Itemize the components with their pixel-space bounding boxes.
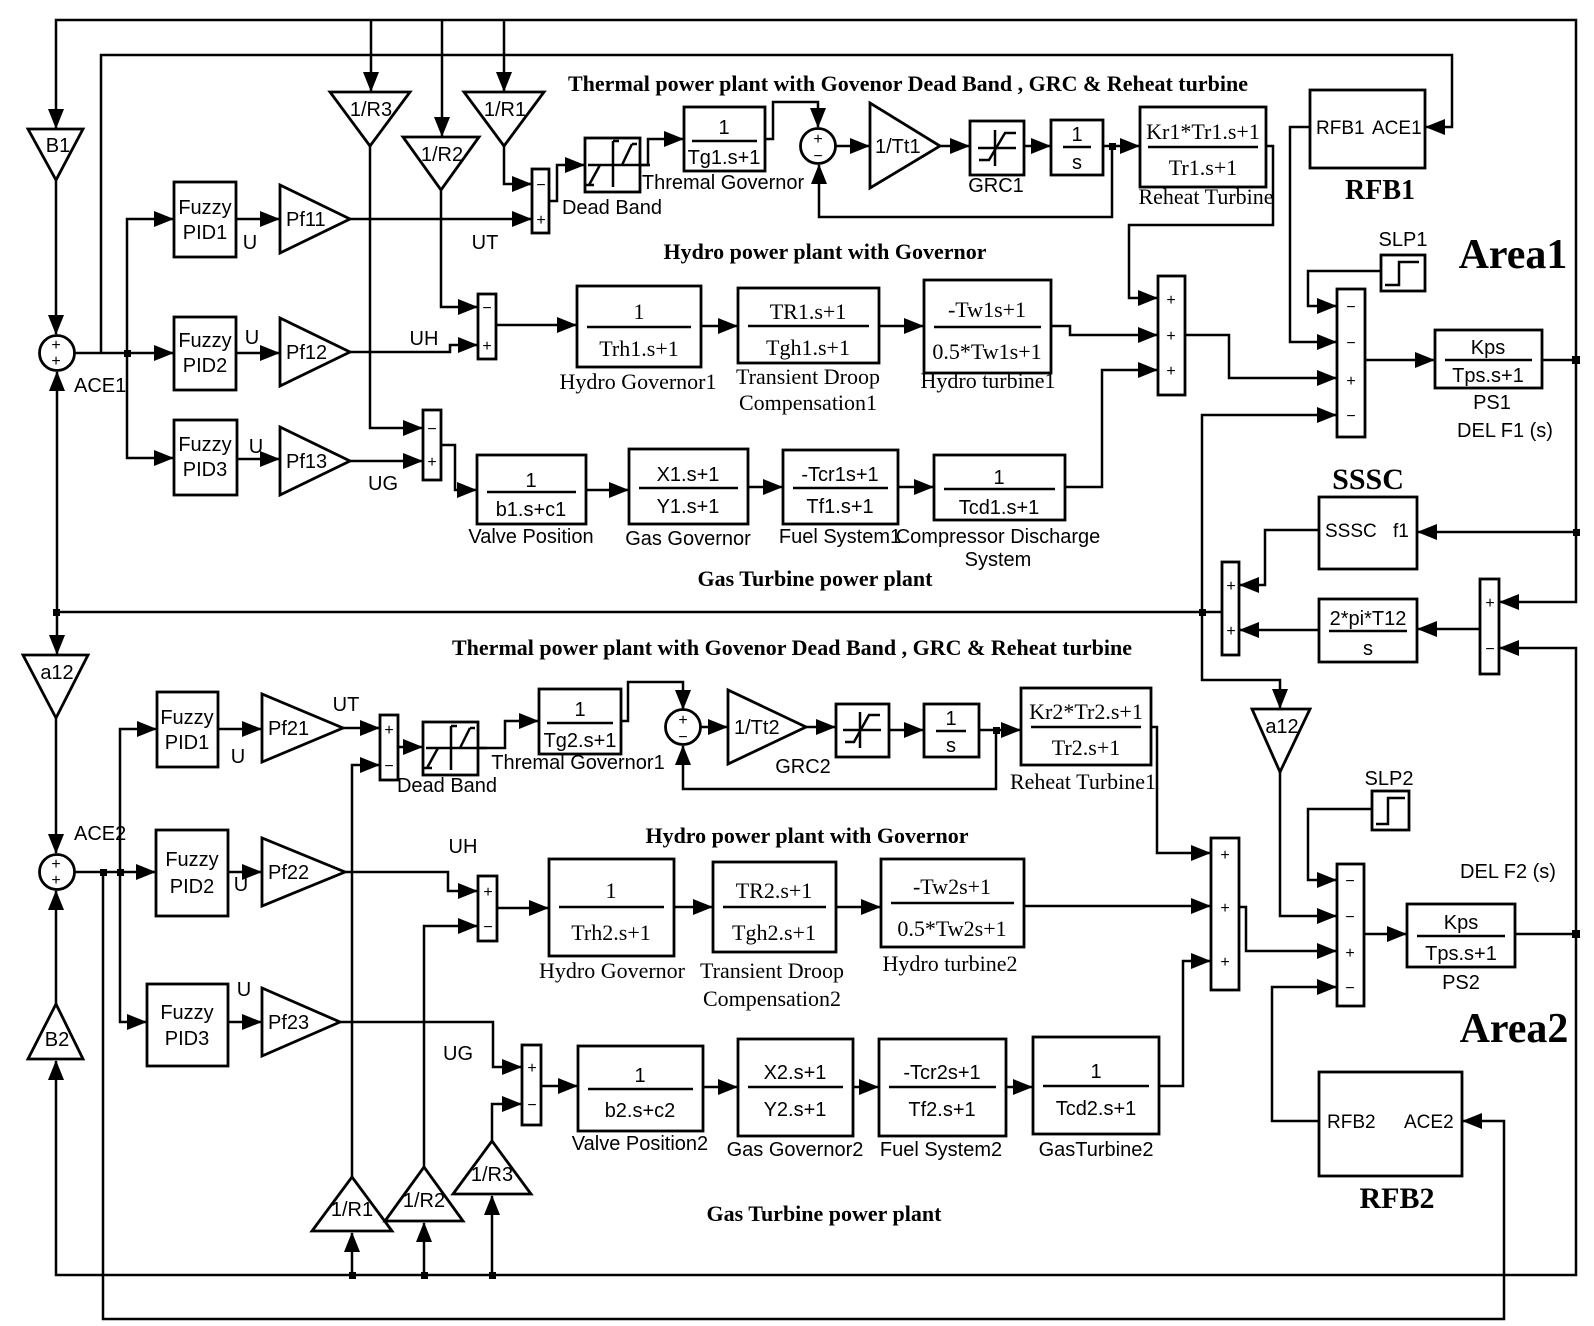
svg-text:+: + <box>1485 595 1494 612</box>
svg-text:1: 1 <box>525 470 536 492</box>
label U of PID2 <box>245 327 259 349</box>
wire drop to 1/R1 <box>503 20 506 91</box>
svg-text:+: + <box>51 353 60 370</box>
svg-text:s: s <box>1072 152 1082 174</box>
label RFB1 <box>1345 175 1415 206</box>
svg-text:+: + <box>1226 623 1235 640</box>
label SLP1 <box>1379 229 1428 251</box>
svg-text:+: + <box>482 338 491 355</box>
label U of PID1 <box>243 232 257 254</box>
wire ACE2 tap down to RFB2 ACE2 input <box>103 872 1504 1319</box>
gain Pf22 <box>262 838 345 906</box>
svg-text:1/R2: 1/R2 <box>421 144 463 166</box>
svg-text:RFB1: RFB1 <box>1345 175 1415 206</box>
svg-text:UH: UH <box>449 836 478 858</box>
svg-text:X2.s+1: X2.s+1 <box>764 1062 827 1084</box>
block Fuzzy PID3 area2 <box>147 984 228 1066</box>
svg-text:Hydro power plant with Governo: Hydro power plant with Governor <box>645 823 968 848</box>
svg-text:1: 1 <box>718 117 729 139</box>
svg-text:ACE2: ACE2 <box>1404 1112 1454 1133</box>
block Transient Droop Compensation1 (TR1.s+1)/(Tgh1.s+1) <box>738 288 879 363</box>
label Valve Position <box>468 526 593 548</box>
svg-text:ACE2: ACE2 <box>74 823 126 845</box>
svg-text:ACE1: ACE1 <box>74 375 126 397</box>
svg-text:+: + <box>1226 578 1235 595</box>
label Fuel System2 <box>880 1139 1002 1161</box>
label GRC2 <box>775 756 831 778</box>
wire tie to ACE1 sum bottom <box>56 372 59 612</box>
wire drop to 1/R3 <box>370 20 373 91</box>
svg-text:PID1: PID1 <box>165 732 209 754</box>
svg-text:+: + <box>51 872 60 889</box>
svg-text:DEL F1 (s): DEL F1 (s) <box>1457 420 1553 442</box>
sum UT area2 <box>380 715 398 780</box>
svg-text:PID2: PID2 <box>183 355 227 377</box>
svg-text:1/Tt1: 1/Tt1 <box>875 136 921 158</box>
svg-text:Hydro turbine1: Hydro turbine1 <box>920 368 1055 393</box>
wire B1 output to ACE1 sum <box>55 180 58 334</box>
wire Hydro Governor1 to Transient Droop Compensation1 <box>701 325 737 328</box>
svg-text:0.5*Tw1s+1: 0.5*Tw1s+1 <box>932 339 1041 364</box>
block Hydro turbine1 (-Tw1s+1)/(0.5*Tw1s+1) <box>924 280 1051 373</box>
wire PID2 to Pf22 <box>228 871 261 874</box>
svg-text:+: + <box>1166 328 1175 345</box>
svg-text:Pf23: Pf23 <box>268 1012 309 1034</box>
svg-text:−: − <box>813 148 822 165</box>
node tie junction a12 right <box>1199 609 1206 616</box>
svg-text:+: + <box>427 454 436 471</box>
wire 3-input sum to big sum plus <box>1185 335 1336 378</box>
svg-text:1: 1 <box>574 699 585 721</box>
svg-text:−: − <box>483 919 492 936</box>
gain Pf11 <box>280 185 350 253</box>
svg-text:GasTurbine2: GasTurbine2 <box>1039 1139 1154 1161</box>
wire UT sum to Dead Band <box>549 165 584 201</box>
svg-text:U: U <box>237 979 251 1001</box>
gain 1/R2 area2 <box>385 1167 463 1221</box>
wire TDC1 to Hydro turbine1 <box>879 325 923 328</box>
wire SSSC output to left tie sum <box>1240 530 1319 585</box>
label Hydro turbine1 <box>920 368 1055 393</box>
svg-text:PID3: PID3 <box>165 1028 209 1050</box>
sum thermal area2 <box>666 710 701 747</box>
block SSSC <box>1319 497 1417 569</box>
svg-text:0.5*Tw2s+1: 0.5*Tw2s+1 <box>897 916 1006 941</box>
svg-text:Pf21: Pf21 <box>268 718 309 740</box>
title gas area1 <box>698 566 934 591</box>
svg-text:Gas Turbine power plant: Gas Turbine power plant <box>707 1201 943 1226</box>
block Valve Position2 1/(b2.s+c2) <box>578 1046 703 1131</box>
label Hydro Governor area2 <box>539 958 686 983</box>
label Hydro Governor1 <box>559 369 716 394</box>
wire drop to 1/R2 <box>441 20 444 136</box>
svg-text:−: − <box>1345 980 1354 997</box>
wire DEL-F1 top feedback line to B1 and droop gains <box>56 20 1576 360</box>
label Compressor Discharge System <box>896 526 1101 571</box>
node ACE2 junction2 <box>117 869 124 876</box>
sum ACE2 <box>40 855 75 890</box>
label Thremal Governor1 <box>491 752 664 774</box>
svg-text:SSSC: SSSC <box>1325 521 1377 542</box>
svg-text:+: + <box>1220 847 1229 864</box>
wire DEL F1 down to tie sum plus <box>1500 360 1576 602</box>
wire ACE1 output to Fuzzy PID2 <box>75 352 173 355</box>
svg-text:Pf11: Pf11 <box>286 209 326 231</box>
block SLP1 step <box>1381 255 1425 291</box>
wire Pf21 to UT sum area2 <box>343 727 379 730</box>
svg-text:1: 1 <box>1090 1061 1101 1083</box>
block PS1 Kps/(Tps.s+1) <box>1435 330 1542 388</box>
svg-text:RFB2: RFB2 <box>1327 1112 1376 1133</box>
svg-text:Valve Position2: Valve Position2 <box>572 1133 708 1155</box>
gain 1/R2 area1 <box>403 137 479 190</box>
node tie junction left <box>53 609 60 616</box>
svg-text:Gas Governor: Gas Governor <box>625 528 751 550</box>
svg-text:RFB2: RFB2 <box>1360 1182 1435 1215</box>
gain 1/Tt2 <box>728 690 806 764</box>
svg-text:Area2: Area2 <box>1460 1006 1569 1052</box>
svg-text:Thremal Governor: Thremal Governor <box>642 172 805 194</box>
svg-text:Tgh2.s+1: Tgh2.s+1 <box>732 920 816 945</box>
svg-text:SLP1: SLP1 <box>1379 229 1428 251</box>
node ACE2 junction1 <box>100 869 107 876</box>
svg-text:Gas Governor2: Gas Governor2 <box>727 1139 864 1161</box>
title gas area2 <box>707 1201 943 1226</box>
wire Reheat Turbine to 3-input sum <box>1129 146 1273 298</box>
block Fuzzy PID3 <box>174 420 237 495</box>
wire SLP1 to big sum minus1 <box>1308 271 1381 306</box>
label ACE1 <box>74 375 126 397</box>
wire 3-input sum area2 to big sum2 plus <box>1239 907 1336 951</box>
svg-text:Kps: Kps <box>1471 337 1505 359</box>
svg-text:−: − <box>527 1097 536 1114</box>
svg-text:Tgh1.s+1: Tgh1.s+1 <box>766 335 850 360</box>
gain 1/R3 area2 <box>453 1141 531 1194</box>
svg-text:Hydro power plant with Governo: Hydro power plant with Governor <box>663 239 986 264</box>
svg-text:+: + <box>1345 945 1354 962</box>
svg-text:PS1: PS1 <box>1473 392 1511 414</box>
label U of PID3 <box>249 436 263 458</box>
svg-text:U: U <box>231 746 245 768</box>
svg-text:1: 1 <box>634 299 645 324</box>
wire 1/s to Reheat Turbine1 <box>979 729 1020 732</box>
svg-text:+: + <box>1166 363 1175 380</box>
svg-text:s: s <box>1363 638 1373 660</box>
wire Pf12 to UH sum (UH) <box>350 345 477 352</box>
label Gas Governor2 <box>727 1139 864 1161</box>
svg-text:Pf13: Pf13 <box>286 451 327 473</box>
svg-text:X1.s+1: X1.s+1 <box>657 464 720 486</box>
block Fuzzy PID1 <box>174 182 236 257</box>
svg-text:1/R3: 1/R3 <box>350 99 392 121</box>
svg-text:Fuzzy: Fuzzy <box>160 707 213 729</box>
label UG area2 <box>443 1043 473 1065</box>
wire ACE1 tap up to RFB1 ACE1 input <box>101 55 1452 353</box>
sum big area1 <box>1337 289 1365 437</box>
block integrator 1/s area2 <box>924 704 979 757</box>
wire ACE1 bus to Fuzzy PID1 <box>127 219 173 353</box>
svg-text:Dead Band: Dead Band <box>562 197 662 219</box>
gain Pf12 <box>280 318 350 386</box>
label Area1 <box>1459 232 1568 278</box>
label ACE2 <box>74 823 126 845</box>
label Dead Band area1 <box>562 197 662 219</box>
svg-text:f1: f1 <box>1393 521 1409 542</box>
block Reheat Turbine1 (Kr2*Tr2.s+1)/(Tr2.s+1) <box>1021 688 1151 765</box>
label Transient Droop Compensation1 <box>736 364 880 415</box>
wire feedback to 1/R2 area2 <box>423 1223 426 1275</box>
label Area2 <box>1460 1006 1569 1052</box>
gain Pf21 <box>262 694 343 762</box>
sum UT area1 <box>532 169 549 233</box>
wire PID3 to Pf13 <box>237 458 279 461</box>
svg-text:-Tw1s+1: -Tw1s+1 <box>948 297 1026 322</box>
svg-text:Reheat Turbine1: Reheat Turbine1 <box>1010 769 1156 794</box>
svg-text:Tps.s+1: Tps.s+1 <box>1452 365 1524 387</box>
svg-text:Thremal Governor1: Thremal Governor1 <box>491 752 664 774</box>
label UT area2 <box>333 694 360 716</box>
wire tie right sum output to 2*pi*T12 input <box>1418 628 1480 631</box>
svg-text:ACE1: ACE1 <box>1372 118 1422 139</box>
wire GasTurbine2 to 3-input sum area2 <box>1159 961 1210 1086</box>
block RFB1 <box>1310 90 1425 168</box>
wire Valve Position2 to Gas Governor2 <box>703 1086 737 1089</box>
svg-text:1: 1 <box>945 708 956 730</box>
sum ACE1 <box>40 336 75 371</box>
svg-text:−: − <box>1485 641 1494 658</box>
wire PS2 output to DEL F2 node <box>1515 933 1576 936</box>
wire DEL F2 up to tie sum minus <box>1500 648 1576 934</box>
svg-text:Tps.s+1: Tps.s+1 <box>1425 943 1497 965</box>
svg-text:−: − <box>427 421 436 438</box>
svg-text:Trh1.s+1: Trh1.s+1 <box>599 336 678 361</box>
label UG <box>368 473 398 495</box>
gain 1/Tt1 <box>870 103 940 188</box>
label PS2 <box>1442 972 1480 994</box>
gain B2 <box>28 1004 83 1059</box>
gain Pf13 <box>280 427 350 495</box>
block tie line 2*pi*T12/s <box>1319 599 1417 662</box>
gain 1/R1 area1 <box>464 92 544 146</box>
node junction after 1/s area2 <box>993 727 1000 734</box>
svg-text:1/R2: 1/R2 <box>403 1190 445 1212</box>
svg-text:Tcd2.s+1: Tcd2.s+1 <box>1056 1098 1137 1120</box>
wire Reheat Turbine1 to 3-input sum area2 <box>1151 727 1210 853</box>
label DEL F1 (s) <box>1457 420 1553 442</box>
wire Compressor Discharge to 3-input sum <box>1065 370 1157 487</box>
svg-text:1: 1 <box>993 467 1004 489</box>
svg-text:-Tcr1s+1: -Tcr1s+1 <box>801 464 878 486</box>
block Dead Band area1 <box>585 138 650 192</box>
wire ACE2 bus to Fuzzy PID3 <box>120 872 146 1022</box>
svg-text:DEL F2 (s): DEL F2 (s) <box>1460 861 1556 883</box>
svg-text:U: U <box>249 436 263 458</box>
block Thermal Governor1 1/(Tg2.s+1) <box>539 689 621 754</box>
svg-text:PS2: PS2 <box>1442 972 1480 994</box>
svg-text:1/Tt2: 1/Tt2 <box>734 717 780 739</box>
label Transient Droop Compensation2 <box>700 958 844 1011</box>
wire Fuel System1 to Compressor Discharge <box>898 486 933 489</box>
label UH area2 <box>449 836 478 858</box>
svg-text:−: − <box>482 300 491 317</box>
svg-text:Compensation1: Compensation1 <box>739 390 877 415</box>
label UH <box>410 328 439 350</box>
svg-text:a12: a12 <box>1265 716 1298 738</box>
label PS1 <box>1473 392 1511 414</box>
svg-text:Compensation2: Compensation2 <box>703 986 841 1011</box>
label Gas Governor <box>625 528 751 550</box>
wire Pf11 to UT sum <box>350 218 531 221</box>
wire Hydro Governor to TDC2 <box>674 906 712 909</box>
wire sum to 1/Tt2 <box>700 726 727 729</box>
svg-text:Fuzzy: Fuzzy <box>178 434 231 456</box>
svg-text:Area1: Area1 <box>1459 232 1568 278</box>
wire DEL F2 down to area2 droop feedback line and B2 <box>56 934 1576 1275</box>
wire feedback to 1/R1 area2 <box>351 1233 354 1275</box>
node junction after 1/s <box>1109 143 1116 150</box>
svg-text:+: + <box>678 712 687 729</box>
sum thermal area1 <box>801 129 836 166</box>
wire Valve Position to Gas Governor <box>586 489 628 492</box>
sum UH area1 <box>478 294 496 359</box>
svg-text:b2.s+c2: b2.s+c2 <box>605 1100 676 1122</box>
wire Thermal Governor to thermal sum circle <box>765 102 818 139</box>
wire 1/s to Reheat Turbine <box>1103 145 1139 148</box>
block GRC1 rate limiter <box>970 121 1024 175</box>
block Gas Governor (X1.s+1)/(Y1.s+1) <box>629 449 748 524</box>
wire sum to 1/Tt1 <box>836 145 869 148</box>
label U of PID2 area2 <box>234 874 248 896</box>
block Transient Droop Compensation2 (TR2.s+1)/(Tgh2.s+1) <box>713 862 836 952</box>
svg-text:UH: UH <box>410 328 439 350</box>
svg-text:1/R1: 1/R1 <box>331 1199 373 1221</box>
wire Gas Governor2 to Fuel System2 <box>853 1086 878 1089</box>
svg-text:+: + <box>483 884 492 901</box>
svg-text:+: + <box>51 337 60 354</box>
block Fuel System1 (-Tcr1s+1)/(Tf1.s+1) <box>783 450 898 524</box>
svg-text:-Tw2s+1: -Tw2s+1 <box>913 874 991 899</box>
label Reheat Turbine1 <box>1010 769 1156 794</box>
node DEL F2 junction <box>1572 930 1580 938</box>
wire GRC1 to integrator <box>1024 145 1050 148</box>
svg-text:−: − <box>384 758 393 775</box>
svg-text:PID1: PID1 <box>183 222 227 244</box>
svg-text:Dead Band: Dead Band <box>397 775 497 797</box>
svg-text:GRC1: GRC1 <box>968 175 1024 197</box>
wire big sum2 to PS2 <box>1364 933 1406 936</box>
svg-text:−: − <box>1346 335 1355 352</box>
svg-text:Tr1.s+1: Tr1.s+1 <box>1169 155 1237 180</box>
svg-text:PID3: PID3 <box>183 459 227 481</box>
wire a12 to ACE2 sum <box>55 718 58 853</box>
svg-text:RFB1: RFB1 <box>1316 118 1365 139</box>
wire feedback to thermal sum minus <box>819 146 1112 217</box>
title thermal area1 <box>568 71 1248 96</box>
svg-text:UT: UT <box>333 694 360 716</box>
svg-text:1: 1 <box>634 1065 645 1087</box>
block GRC2 rate limiter <box>836 704 889 757</box>
svg-text:Tf2.s+1: Tf2.s+1 <box>908 1099 975 1121</box>
wire ACE2 output to Fuzzy PID2 <box>75 871 155 874</box>
svg-text:+: + <box>1346 373 1355 390</box>
wire RFB1 output to big sum minus2 <box>1290 127 1336 342</box>
label Fuel System1 <box>779 526 901 548</box>
svg-text:+: + <box>1166 292 1175 309</box>
wire 1/Tt2 to GRC2 <box>806 726 835 729</box>
block Reheat Turbine (Kr1*Tr1.s+1)/(Tr1.s+1) <box>1140 107 1266 187</box>
wire a12 right to big sum2 minus <box>1280 772 1336 916</box>
sum UG area1 <box>423 410 441 480</box>
label Thremal Governor <box>642 172 805 194</box>
label GRC1 <box>968 175 1024 197</box>
block Fuzzy PID1 area2 <box>157 692 218 767</box>
gain 1/R1 area2 <box>312 1177 392 1231</box>
svg-text:+: + <box>384 722 393 739</box>
wire 1/R1 output to UT sum minus <box>504 146 531 184</box>
svg-text:Fuzzy: Fuzzy <box>178 197 231 219</box>
svg-text:1: 1 <box>1071 124 1082 146</box>
svg-text:Tr2.s+1: Tr2.s+1 <box>1052 735 1120 760</box>
svg-text:Fuel System1: Fuel System1 <box>779 526 901 548</box>
svg-text:+: + <box>536 212 545 229</box>
gain a12 left <box>23 655 88 718</box>
svg-text:Compressor Discharge: Compressor Discharge <box>896 526 1101 548</box>
block Fuzzy PID2 area2 <box>156 830 228 916</box>
svg-text:Thermal power plant with Goven: Thermal power plant with Govenor Dead Ba… <box>568 71 1248 96</box>
svg-text:U: U <box>234 874 248 896</box>
svg-text:Transient Droop: Transient Droop <box>736 364 880 389</box>
svg-text:2*pi*T12: 2*pi*T12 <box>1330 608 1407 630</box>
wire feedback to thermal sum area2 minus <box>683 730 996 789</box>
svg-text:b1.s+c1: b1.s+c1 <box>496 499 567 521</box>
sum tie left <box>1222 562 1239 655</box>
wire PID2 to Pf12 <box>236 352 279 355</box>
block SLP2 step <box>1372 791 1409 830</box>
label SSSC title <box>1332 463 1404 496</box>
sum 3-input area1 <box>1158 276 1185 395</box>
svg-text:SSSC: SSSC <box>1332 463 1404 496</box>
wire Fuel System2 to GasTurbine2 <box>1006 1086 1032 1089</box>
block Hydro Governor1 1/(Trh1.s+1) <box>577 286 701 367</box>
wire Hydro turbine1 to 3-input sum <box>1051 326 1157 335</box>
gain 1/R3 area1 <box>330 92 410 146</box>
svg-text:−: − <box>1345 873 1354 890</box>
wire tie line output across to left <box>57 611 1222 614</box>
block GasTurbine2 1/(Tcd2.s+1) <box>1033 1037 1159 1134</box>
svg-text:+: + <box>1220 900 1229 917</box>
svg-text:Kps: Kps <box>1444 912 1478 934</box>
svg-text:TR1.s+1: TR1.s+1 <box>770 299 847 324</box>
svg-text:+: + <box>51 856 60 873</box>
svg-text:Pf12: Pf12 <box>286 342 327 364</box>
label GasTurbine2 <box>1039 1139 1154 1161</box>
block Fuzzy PID2 <box>174 317 236 390</box>
svg-text:Fuzzy: Fuzzy <box>178 330 231 352</box>
svg-text:Kr2*Tr2.s+1: Kr2*Tr2.s+1 <box>1029 699 1143 724</box>
wire UG sum to Valve Position <box>441 445 476 490</box>
svg-text:−: − <box>536 177 545 194</box>
title hydro area2 <box>645 823 968 848</box>
wire Pf13 to UG sum <box>350 460 422 463</box>
label Reheat Turbine <box>1138 184 1273 209</box>
wire tie line to big sum1 minus4 <box>1202 415 1336 612</box>
svg-text:UG: UG <box>368 473 398 495</box>
svg-text:Pf22: Pf22 <box>268 862 309 884</box>
wire Hydro turbine2 to 3-input sum area2 <box>1024 905 1210 908</box>
svg-text:+: + <box>527 1060 536 1077</box>
block Valve Position 1/(b1.s+c1) <box>477 455 586 524</box>
title thermal area2 <box>452 635 1132 660</box>
